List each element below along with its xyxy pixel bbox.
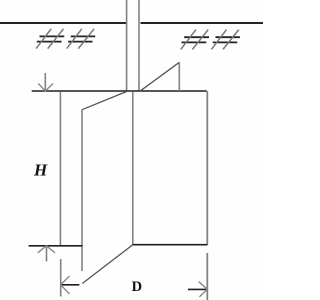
- svg-text:D: D: [132, 279, 142, 295]
- svg-text:H: H: [33, 161, 48, 180]
